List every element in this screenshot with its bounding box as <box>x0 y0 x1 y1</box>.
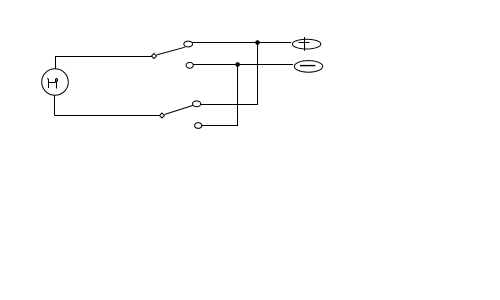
battery terminal BT- minus sign <box>300 65 315 67</box>
wire horizontal S2 lower throw <box>202 125 238 127</box>
battery terminal BT+ plus sign <box>304 37 306 51</box>
switch S1 throw contact upper <box>184 41 193 47</box>
wire motor top horizontal to switch S1 pole <box>55 56 152 58</box>
battery terminal BT- ellipse <box>294 61 322 73</box>
wire horizontal S2 upper throw <box>201 104 258 106</box>
junction node B <box>235 62 240 67</box>
switch S2 throw contact lower <box>195 123 202 129</box>
wire from S1 upper throw to plus terminal <box>193 42 291 44</box>
wire motor bottom vertical <box>54 95 56 115</box>
motor M1 letter M <box>48 78 58 89</box>
switch S2 pole contact <box>160 113 165 118</box>
switch S1 throw contact lower <box>186 62 193 68</box>
junction node A <box>255 40 260 45</box>
wire motor top vertical <box>55 57 57 69</box>
switch S1 pole contact <box>152 54 157 59</box>
switch S2 arm <box>165 105 193 114</box>
wire vertical from node A down to S2 upper throw wire <box>257 43 259 105</box>
wire motor bottom horizontal to switch S2 pole <box>55 115 160 117</box>
motor M1 circle <box>42 69 69 96</box>
wire vertical from node B down to S2 lower throw wire <box>237 65 239 126</box>
wire from S1 lower throw to minus terminal <box>193 64 293 66</box>
battery terminal BT+ ellipse <box>292 39 320 49</box>
switch S1 arm <box>157 47 185 55</box>
switch S2 throw contact upper <box>192 101 200 107</box>
